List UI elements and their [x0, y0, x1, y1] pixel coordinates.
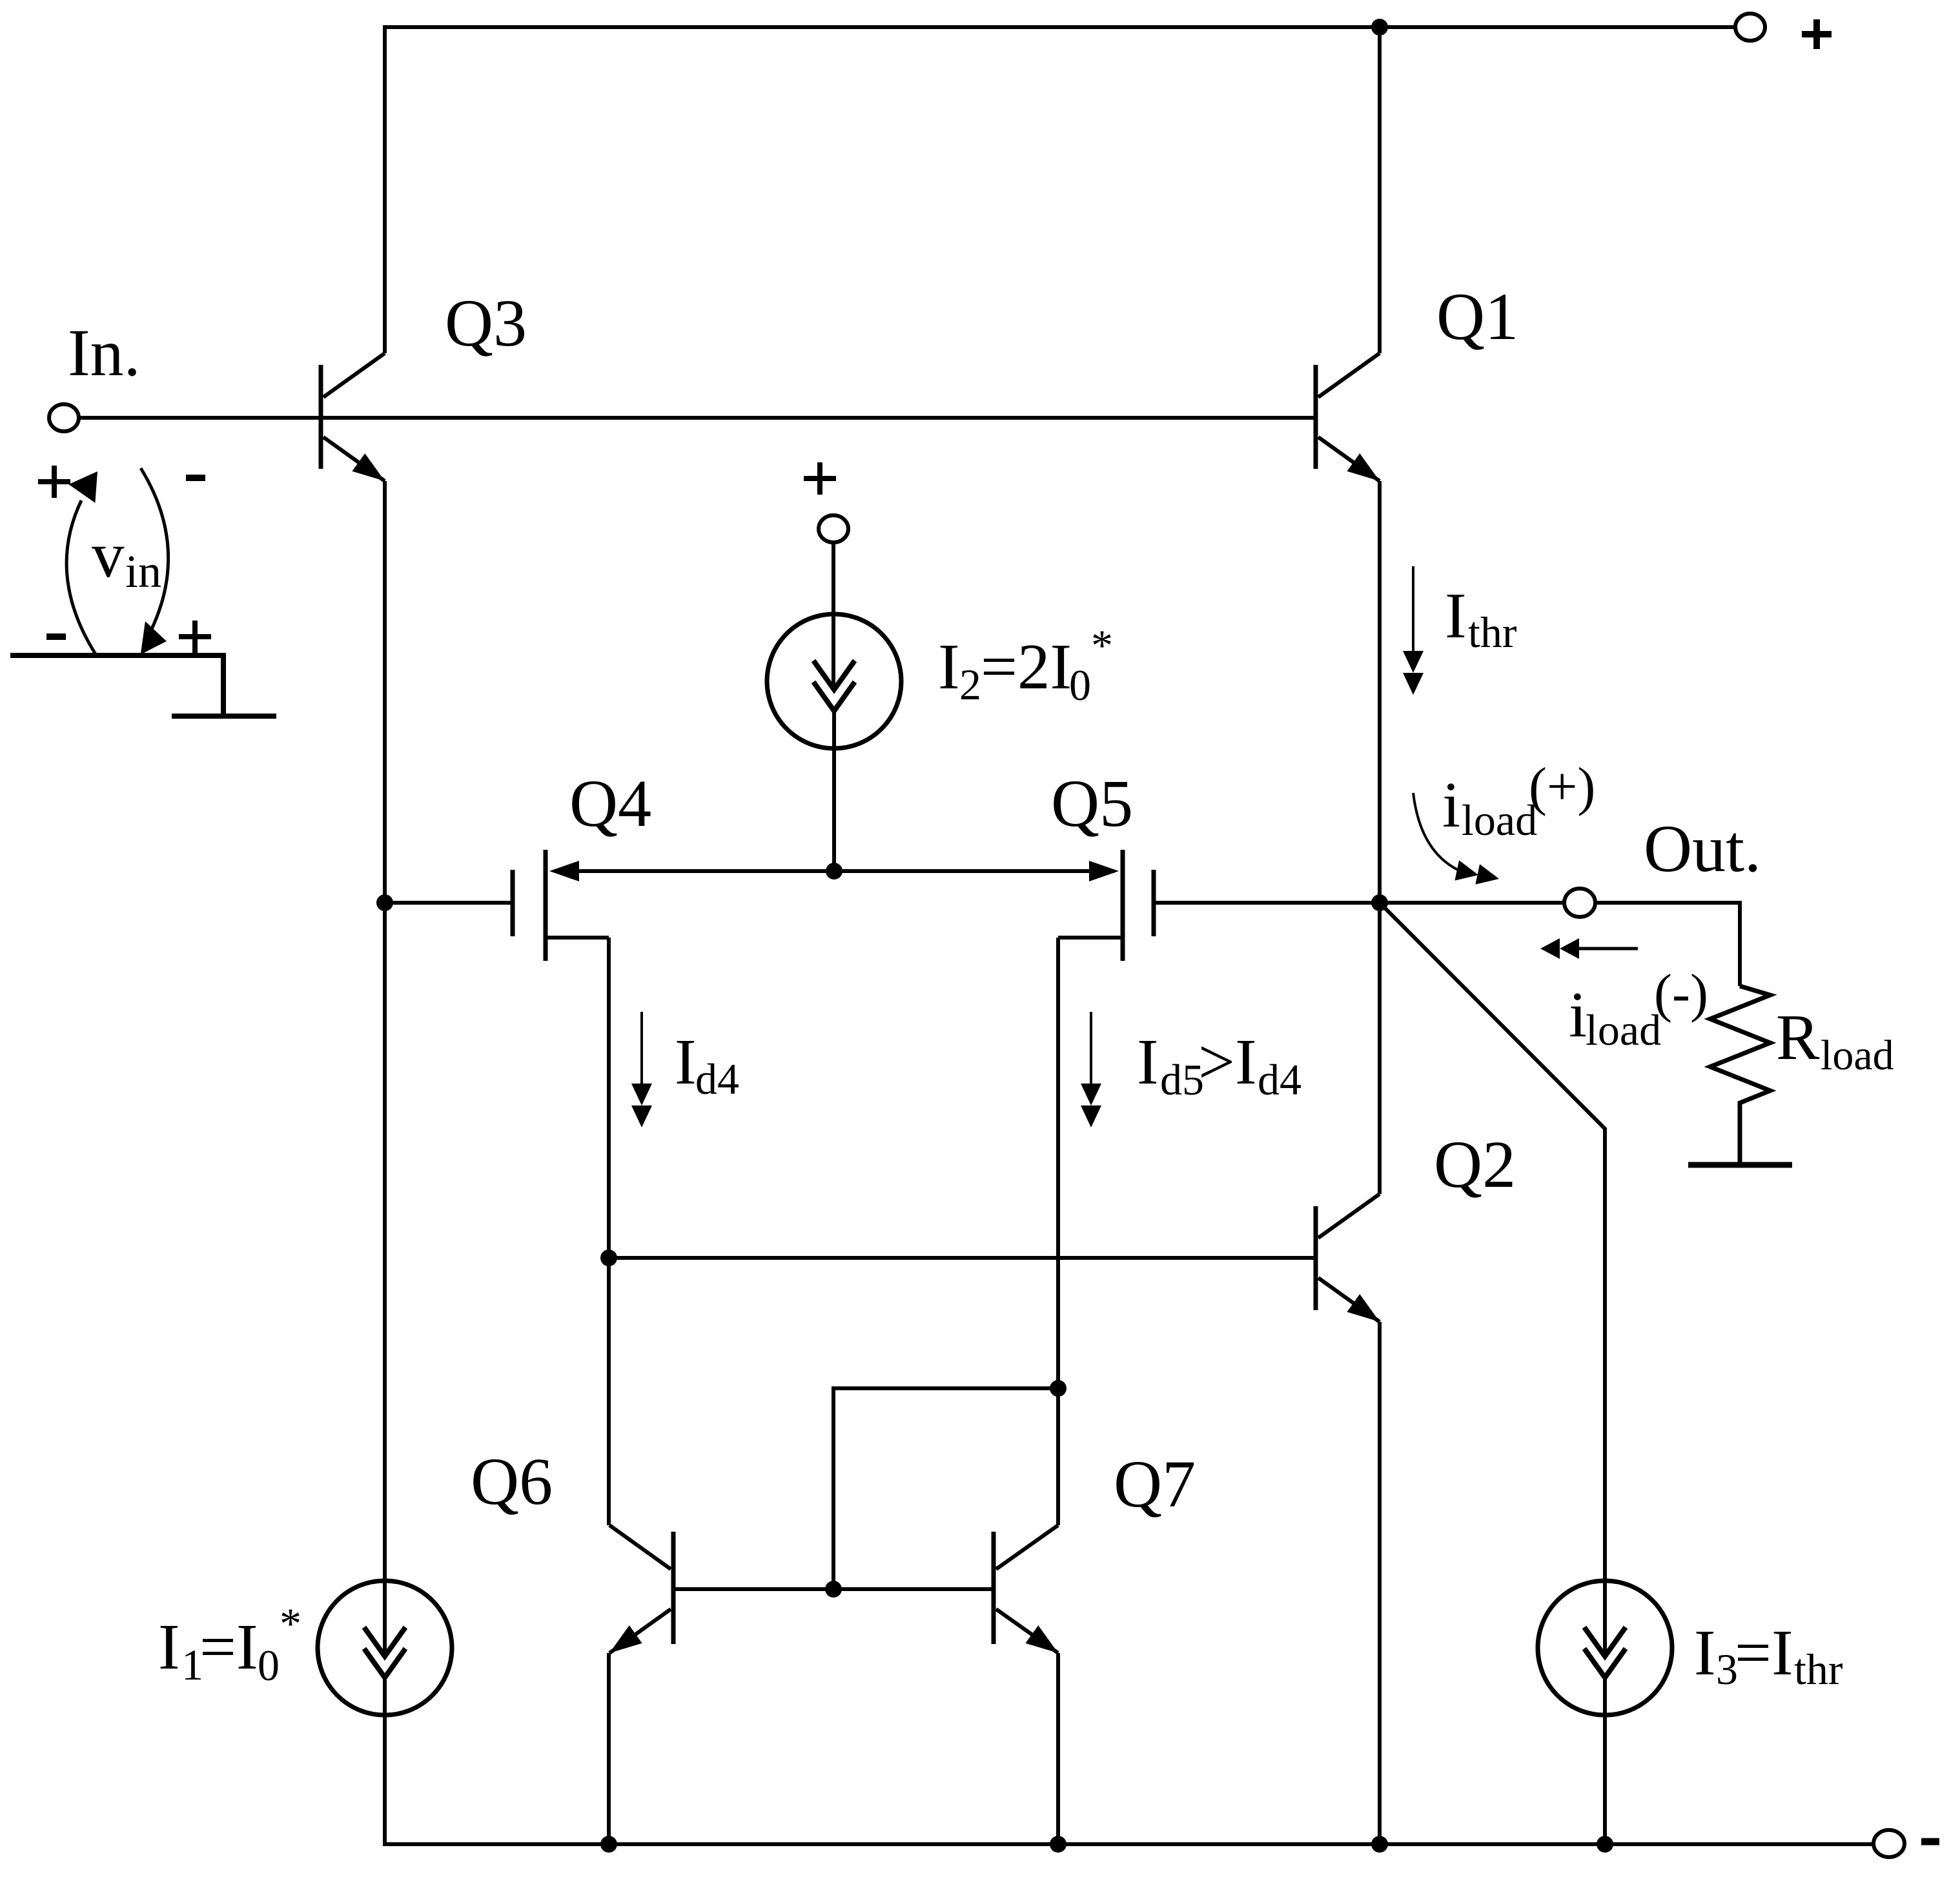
wire source coupling line Q4-Q5 — [555, 869, 1114, 873]
arrow iload(-) — [1540, 938, 1638, 959]
svg-text:Out.: Out. — [1644, 812, 1761, 886]
terminal + supply (open circle) — [1735, 14, 1765, 41]
svg-text:In.: In. — [68, 316, 141, 390]
transistor Q4 (PMOS) — [513, 850, 609, 961]
resistor Rload — [1710, 986, 1770, 1165]
label + (vin bottom) — [179, 621, 211, 653]
wire Q2 emitter to rail — [1378, 1322, 1382, 1846]
current source I3 — [1538, 1581, 1672, 1715]
label - (vin bottom) — [46, 633, 66, 640]
node rail Q7 — [1050, 1836, 1067, 1853]
terminal In. (open circle) — [49, 404, 79, 431]
label + (vin top) — [38, 466, 70, 498]
wire Q1 collector vertical — [1378, 27, 1382, 353]
wire Q2 collector vertical — [1378, 903, 1382, 1194]
svg-text:I2=2I0*: I2=2I0* — [938, 621, 1113, 710]
node Q4 gate junction — [376, 894, 393, 911]
svg-text:Ithr: Ithr — [1445, 579, 1517, 657]
svg-text:Q2: Q2 — [1434, 1127, 1516, 1202]
node Q7 collector junction — [1050, 1380, 1067, 1397]
node rail Q6 — [600, 1836, 617, 1853]
arrow iload(+) curved — [1413, 793, 1501, 889]
arrow Id4 current — [631, 1012, 652, 1127]
svg-text:I3=Ithr: I3=Ithr — [1694, 1616, 1843, 1694]
wire output line — [1380, 903, 1740, 986]
svg-text:Q5: Q5 — [1051, 766, 1133, 841]
node I2 junction — [826, 863, 842, 879]
transistor Q3 — [321, 353, 391, 490]
svg-text:Q7: Q7 — [1114, 1447, 1196, 1521]
svg-text:iload(-): iload(-) — [1569, 963, 1708, 1054]
wire output diagonal to I3 — [1380, 903, 1605, 1846]
wire diode link Q7 — [833, 1388, 1058, 1589]
svg-text:Rload: Rload — [1776, 1001, 1894, 1079]
node rail I3 — [1597, 1836, 1613, 1853]
svg-text:Id4: Id4 — [675, 1025, 739, 1104]
current source I2 — [767, 462, 901, 871]
wire Q7 emitter to rail — [1056, 1653, 1060, 1846]
svg-text:Q6: Q6 — [471, 1444, 553, 1519]
wire Q5 drain vertical — [1056, 938, 1060, 1525]
node Q6-Q7 base junction — [825, 1581, 842, 1598]
wire Q2 base line — [609, 1256, 1316, 1260]
ground Rload — [1688, 1162, 1792, 1168]
node rail Q2 — [1371, 1836, 1388, 1853]
svg-text:I1=I0*: I1=I0* — [158, 1599, 301, 1690]
node Q2 base junction — [600, 1249, 617, 1266]
svg-text:Q1: Q1 — [1436, 280, 1518, 354]
arrow Id5 current — [1081, 1012, 1101, 1127]
wire Q6 emitter to rail — [607, 1653, 611, 1846]
transistor Q7 — [994, 1525, 1065, 1662]
svg-text:Q3: Q3 — [445, 286, 527, 360]
wire bottom rail — [383, 1842, 1875, 1846]
wire Q5 gate to output node — [1154, 901, 1380, 905]
transistor Q5 (PMOS) — [1058, 850, 1154, 961]
source vin symbol — [10, 462, 276, 716]
wire left vertical (Q3 emitter down through I1) — [383, 481, 387, 1846]
node top-right junction — [1371, 19, 1388, 36]
terminal Out. (open circle) — [1564, 889, 1595, 917]
wire Q1 emitter vertical — [1378, 481, 1382, 903]
terminal - supply (open circle) — [1873, 1830, 1904, 1857]
arrow vin left arc — [66, 500, 96, 654]
wire Q6-Q7 base line — [673, 1587, 994, 1591]
arrow Ithr current — [1403, 566, 1424, 695]
wire Q4 gate — [385, 901, 511, 905]
label + (positive supply) — [1802, 19, 1832, 49]
transistor Q6 — [603, 1525, 673, 1662]
current source I1 — [318, 1581, 452, 1715]
svg-text:iload(+): iload(+) — [1442, 757, 1595, 845]
wire top rail with top-left corner — [385, 27, 1735, 353]
transistor Q1 — [1316, 353, 1386, 490]
label - (negative supply) — [1921, 1838, 1939, 1845]
svg-text:vin: vin — [92, 519, 161, 597]
transistor Q2 — [1316, 1194, 1386, 1331]
wire input base line — [79, 416, 1316, 420]
waveform step — [10, 655, 276, 716]
svg-text:Q4: Q4 — [569, 766, 651, 841]
wire Q4 drain vertical — [607, 938, 611, 1525]
node output junction — [1371, 894, 1388, 911]
svg-text:Id5>Id4: Id5>Id4 — [1137, 1025, 1302, 1104]
label - (vin top) — [186, 475, 205, 481]
arrow vin right arc — [141, 468, 168, 638]
